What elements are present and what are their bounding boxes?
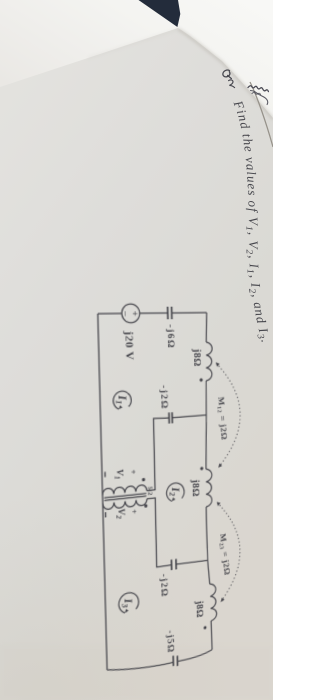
- handwritten Q.2: [223, 70, 235, 88]
- wire top rail J1 to L2: [205, 415, 207, 469]
- mesh current I3: [119, 591, 139, 614]
- problem statement text on curved path: [234, 103, 265, 350]
- white sheet overlay top-right: [0, 0, 273, 118]
- wire top rail L2 to J2: [206, 507, 208, 561]
- capacitor C3 -j2ohm: [171, 559, 176, 570]
- page edge curve: [250, 82, 273, 147]
- svg-text:+: +: [128, 469, 137, 475]
- svg-text:I2: I2: [167, 486, 182, 497]
- mutual coupling M12 dotted arc: [216, 362, 241, 467]
- label V1 minus: [104, 472, 106, 477]
- inductor L2 j8ohm: [206, 469, 213, 507]
- dot T1 secondary: [144, 504, 147, 508]
- M23 arrowhead right: [221, 597, 225, 602]
- svg-text:I3: I3: [120, 597, 135, 609]
- svg-text:-j2Ω: -j2Ω: [158, 573, 169, 598]
- dot L1 right end: [200, 378, 203, 381]
- svg-text:j8Ω: j8Ω: [194, 599, 204, 619]
- svg-text:j8Ω: j8Ω: [191, 348, 201, 367]
- wire C2 to transformer primary: [145, 417, 170, 490]
- capacitor C2 -j2ohm: [169, 412, 172, 423]
- capacitor C1 -j6ohm: [168, 307, 172, 320]
- scribble: [248, 86, 268, 92]
- svg-text:-j5Ω: -j5Ω: [165, 629, 176, 654]
- shadow along sheet edge: [178, 29, 273, 119]
- svg-text:-j2Ω: -j2Ω: [158, 385, 169, 410]
- M12 arrowhead right: [218, 463, 222, 468]
- transformer T1 secondary winding: [103, 499, 147, 510]
- svg-text:-j6Ω: -j6Ω: [165, 324, 176, 349]
- M23 arrowhead left: [217, 501, 221, 506]
- wire top rail L1 to J1: [205, 381, 208, 415]
- inductor L3 j8ohm: [210, 583, 217, 621]
- dark background wedge: [139, 0, 181, 27]
- svg-text:V2: V2: [114, 508, 126, 520]
- inductor L1 j8ohm: [205, 342, 212, 381]
- capacitor C4 -j5ohm: [173, 655, 177, 667]
- wire top rail segment left: [206, 313, 207, 343]
- svg-text:V1: V1: [113, 469, 125, 480]
- dot L3 right end: [204, 626, 207, 630]
- wire right rail bottom: [107, 657, 173, 675]
- wire right rail top: [177, 650, 212, 662]
- wire branch J1 down: [172, 415, 206, 418]
- voltage source VS j20V: [122, 304, 140, 323]
- mesh current I2: [166, 482, 184, 502]
- wire left rail source to BL: [98, 312, 122, 314]
- svg-text:j8Ω: j8Ω: [190, 478, 200, 497]
- wire left rail cap to source: [140, 312, 168, 314]
- svg-text:M12 = j2Ω: M12 = j2Ω: [215, 396, 228, 441]
- wire C3 up to top rail: [176, 560, 208, 565]
- mutual coupling M23 dotted arc: [217, 500, 240, 602]
- dot L2 left end: [200, 467, 203, 470]
- bottom vignette: [0, 420, 273, 700]
- wire bottom rail: [98, 314, 107, 670]
- svg-text:I1: I1: [114, 394, 130, 405]
- mesh current I1: [113, 391, 131, 410]
- dot T1 primary: [142, 478, 145, 482]
- wire top rail J2 to L3: [208, 560, 210, 584]
- svg-text:5:2: 5:2: [146, 486, 153, 496]
- wire secondary top to C3 branch: [147, 496, 172, 568]
- transformer core: [104, 493, 146, 497]
- transformer T1 primary winding: [102, 485, 146, 496]
- svg-text:+: +: [129, 509, 138, 515]
- wire top rail L3 to TR corner: [211, 621, 212, 650]
- svg-text:M23 = j2Ω: M23 = j2Ω: [217, 533, 231, 577]
- M12 arrowhead left: [216, 362, 220, 367]
- svg-text:j20 V: j20 V: [122, 330, 135, 361]
- wire left rail top: [172, 312, 207, 314]
- label V2 minus: [105, 512, 107, 517]
